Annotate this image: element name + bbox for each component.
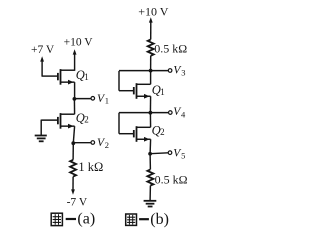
svg-text:0.5 kΩ: 0.5 kΩ [154, 41, 187, 55]
resistor 0.5 kOhm (bottom) [147, 169, 153, 185]
wire Q2 source down to node V2 [73, 126, 74, 143]
supply +10 V arrow (b) [149, 17, 153, 39]
wire node V1 to terminal [74, 98, 91, 100]
terminal V4 circle [169, 111, 173, 115]
wire V4 to Q2 drain (b) [149, 113, 151, 128]
wire resistor to node V3 [150, 56, 152, 71]
svg-text:(a): (a) [77, 211, 95, 228]
svg-text:1 kΩ: 1 kΩ [78, 160, 103, 174]
wire Q1 gate loop (b) [119, 71, 133, 91]
svg-text:(b): (b) [150, 211, 169, 228]
svg-text:+10 V: +10 V [138, 5, 169, 19]
wire V5 to resistor 0.5k (bottom) [149, 154, 151, 170]
node V2 junction dot [71, 141, 75, 145]
label V3 [173, 64, 185, 77]
wire Q2 gate loop (b) [119, 113, 133, 134]
wire Q1 source down to node V1 [74, 82, 76, 99]
svg-text:5: 5 [181, 150, 185, 160]
transistor Q2 (b) [134, 126, 151, 142]
node V4 line [119, 112, 169, 114]
svg-text:1: 1 [160, 87, 165, 97]
svg-text:-7 V: -7 V [67, 196, 88, 208]
wire Q2 gate to ground [41, 120, 57, 136]
svg-text:3: 3 [181, 68, 185, 78]
caption figure 1 (a): boxed glyph [51, 213, 62, 225]
svg-text:1: 1 [105, 96, 109, 106]
caption figure 1 (b): boxed glyph [126, 214, 137, 225]
terminal V3 circle [168, 69, 172, 73]
svg-text:0.5 kΩ: 0.5 kΩ [155, 172, 188, 186]
label V4 [173, 106, 186, 119]
svg-text:2: 2 [160, 127, 165, 137]
wire resistor to -7V arrow [72, 177, 74, 190]
resistor R 1 kOhm [70, 160, 76, 177]
node V5 junction dot [148, 152, 152, 156]
wire V2 to resistor 1k [72, 143, 74, 160]
transistor Q1 (b) [134, 83, 151, 99]
wire node V2 to terminal [73, 142, 91, 144]
wire +7V corner to Q1 gate [42, 75, 58, 77]
wire node V5 to terminal [150, 152, 168, 155]
resistor 0.5 kOhm (top) [148, 40, 154, 56]
wire V3 to Q1 drain (b) [150, 71, 152, 85]
node V3 junction dot [149, 69, 153, 73]
supply +7 V arrow [40, 56, 44, 76]
ground (a) [35, 136, 47, 142]
caption figure 1 (a): dash glyph [66, 218, 76, 220]
label V1 [97, 93, 109, 106]
svg-text:1: 1 [84, 72, 89, 82]
supply +10 V arrow (a) [73, 49, 77, 71]
wire Q1 source down to node V4 [149, 96, 151, 112]
transistor Q1 (a) [58, 69, 75, 85]
wire resistor to ground (b) [149, 186, 151, 201]
terminal V5 circle [168, 151, 172, 155]
svg-text:+10 V: +10 V [64, 37, 94, 49]
terminal V2 circle [91, 141, 95, 145]
ground (b) [144, 201, 157, 207]
label V5 [173, 147, 185, 160]
node V1 junction dot [73, 97, 77, 101]
caption figure 1 (b): dash glyph [139, 218, 149, 220]
svg-text:+7 V: +7 V [31, 44, 55, 56]
wire Q2 source down to node V5 [149, 139, 152, 154]
label Q2 (a) [76, 111, 89, 125]
terminal V1 circle [91, 97, 95, 101]
label Q1 (b) [152, 83, 165, 97]
svg-text:2: 2 [84, 115, 89, 125]
label Q2 (b) [152, 123, 165, 137]
supply -7 V arrow (down) [71, 189, 75, 194]
label V2 [97, 137, 109, 150]
svg-text:2: 2 [105, 140, 109, 150]
label Q1 (a) [76, 68, 89, 82]
wire V1 to Q2 drain [73, 99, 75, 114]
node V3 line [119, 70, 168, 72]
node V4 junction dot [149, 111, 153, 115]
transistor Q2 (a) [58, 113, 75, 129]
